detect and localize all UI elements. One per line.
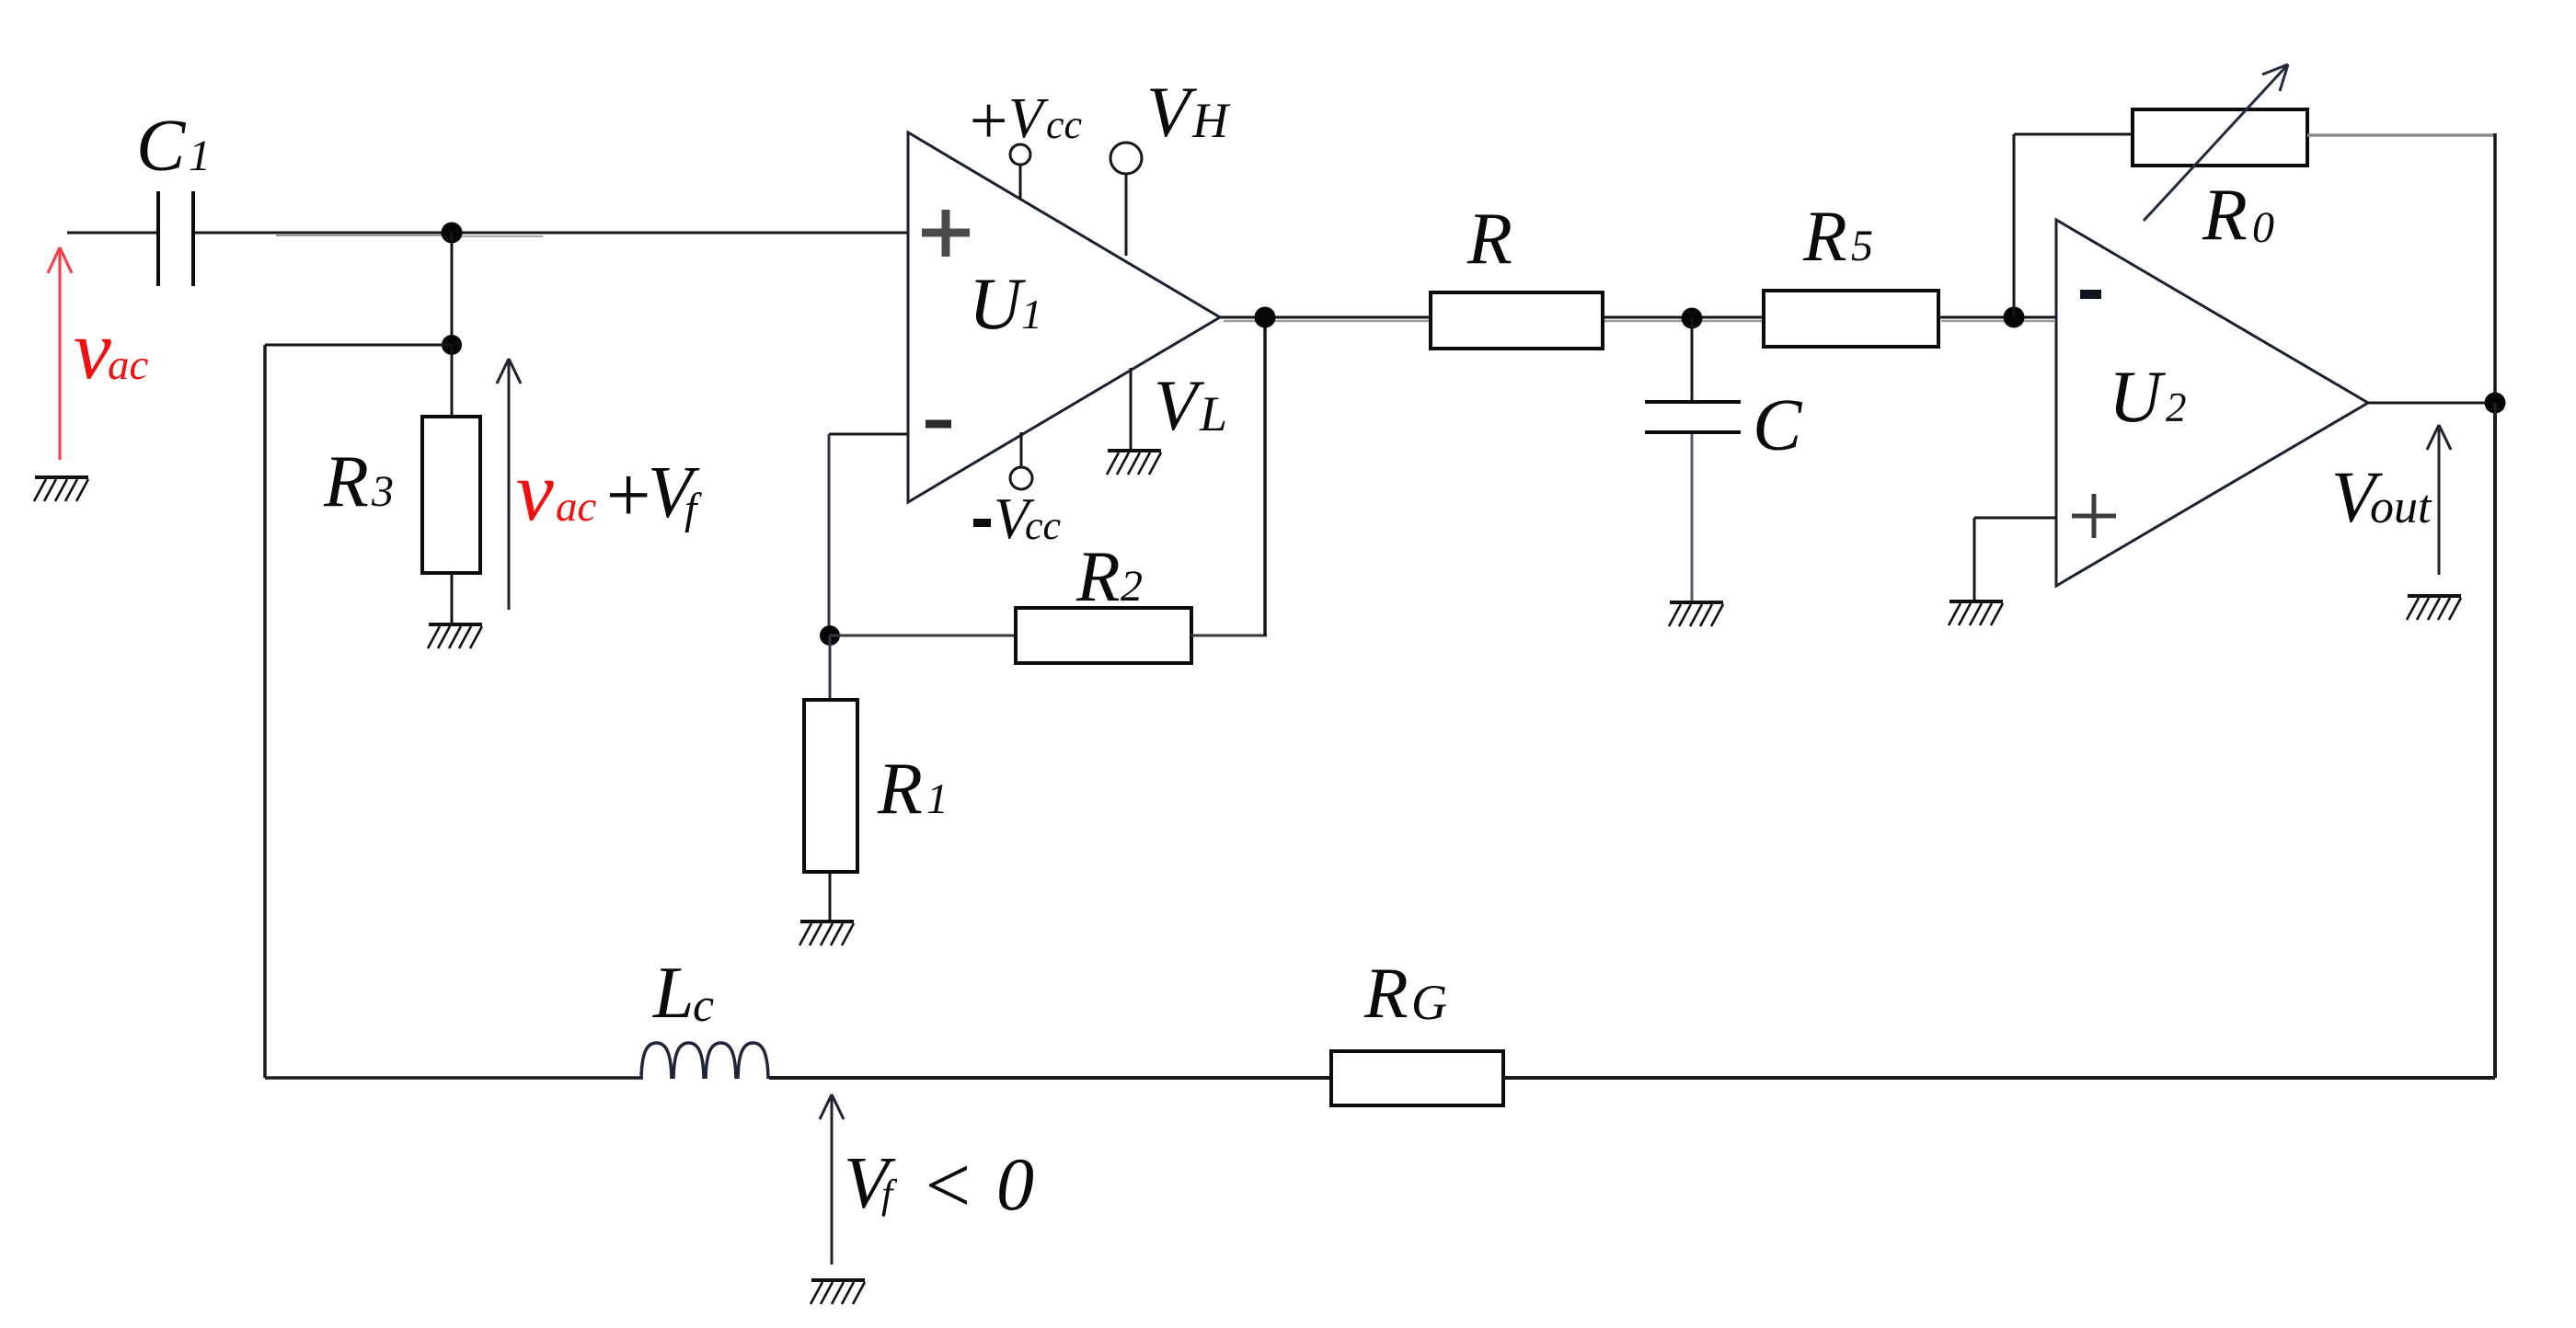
label V_H: [1146, 72, 1231, 152]
svg-text:1: 1: [926, 775, 949, 823]
U2 plus input wire: [1974, 517, 2056, 520]
svg-text:R: R: [1466, 199, 1512, 280]
node D junction dot: [1682, 308, 1703, 329]
svg-text:out: out: [2370, 481, 2432, 533]
label R2: [1075, 536, 1143, 616]
wire R2 to output vertical: [1191, 635, 1267, 637]
arrow V_f: [820, 1094, 844, 1265]
node A junction dot: [442, 223, 463, 244]
svg-text:+: +: [965, 84, 1011, 159]
V_L pin wire: [1130, 368, 1133, 450]
svg-text:3: 3: [371, 467, 394, 516]
svg-text:R: R: [1363, 953, 1409, 1033]
op-amp U1 triangle: [908, 132, 1220, 502]
ground under R3: [428, 624, 482, 648]
svg-text:R: R: [1802, 196, 1847, 276]
svg-text:R: R: [1075, 536, 1121, 616]
red source arrow v_ac: [48, 247, 72, 460]
svg-text:2: 2: [1121, 562, 1143, 611]
svg-text:V: V: [1008, 87, 1049, 150]
U1 plus input sign: [922, 210, 970, 257]
resistor R: [1431, 292, 1603, 349]
R0 variable arrow: [2144, 64, 2288, 221]
svg-text:5: 5: [1851, 222, 1873, 270]
label C1: [136, 106, 211, 187]
label V_f < 0: [844, 1141, 1034, 1231]
wire node C to R2: [830, 635, 1016, 637]
svg-text:H: H: [1191, 93, 1231, 148]
svg-text:1: 1: [189, 132, 211, 180]
node C junction dot: [820, 625, 840, 646]
resistor R5: [1764, 291, 1938, 347]
svg-text:+: +: [601, 450, 655, 539]
+Vcc pin circle: [1019, 166, 1022, 200]
inductor Lc: [641, 1043, 768, 1079]
ground under U2 plus input: [1949, 601, 2003, 625]
wire U1 output to R: [1220, 316, 1432, 319]
svg-text:c: c: [693, 979, 714, 1032]
resistor RG: [1331, 1051, 1503, 1105]
ground under C: [1669, 602, 1723, 626]
op-amp U2 triangle: [2056, 220, 2368, 586]
variable resistor R0: [2133, 109, 2307, 166]
svg-text:v: v: [74, 303, 111, 396]
wire left vertical down to bottom loop: [263, 345, 267, 1078]
label V_L: [1154, 365, 1227, 445]
wire U2 output to node F: [2368, 402, 2495, 405]
wire C1 to node A: [195, 232, 450, 235]
svg-text:cc: cc: [1046, 102, 1083, 147]
node B junction dot: [442, 335, 462, 355]
svg-text:V: V: [1146, 72, 1198, 152]
wire R1 to ground: [829, 872, 832, 920]
label v_ac (red): [74, 303, 149, 396]
node E junction dot: [2004, 307, 2025, 328]
label U2: [2109, 357, 2187, 438]
wire inductor to RG: [769, 1076, 1331, 1080]
U1 minus input sign: [926, 420, 951, 429]
resistor R1: [804, 700, 857, 872]
svg-text:V: V: [1154, 365, 1205, 445]
wire feedback top left: [2014, 133, 2133, 136]
svg-text:0: 0: [2252, 203, 2274, 252]
label Lc: [652, 953, 714, 1034]
label R1: [877, 749, 949, 830]
-Vcc pin circle: [1020, 432, 1023, 467]
wire C to ground: [1691, 434, 1694, 601]
label +Vcc: [965, 84, 1083, 159]
svg-text:C: C: [136, 106, 187, 187]
arrow v_ac+Vf (black): [497, 359, 521, 610]
ground under V_out: [2407, 596, 2461, 620]
node output U1 dot: [1255, 307, 1276, 328]
U2 minus input sign: [2080, 290, 2101, 299]
svg-text:U: U: [969, 264, 1027, 345]
label U1: [969, 264, 1042, 345]
ground under V_f arrow: [811, 1280, 865, 1304]
label R0: [2202, 175, 2274, 256]
wire plus input down to ground: [1973, 518, 1976, 600]
label R3: [323, 441, 394, 522]
svg-text:L: L: [652, 953, 695, 1034]
wire R3 to ground: [451, 573, 454, 624]
wire right vertical down: [2493, 403, 2497, 1078]
svg-text:0: 0: [996, 1142, 1034, 1226]
svg-text:R: R: [323, 441, 369, 522]
svg-text:R: R: [877, 749, 923, 830]
svg-text:L: L: [1199, 386, 1227, 441]
svg-text:G: G: [1411, 975, 1447, 1030]
wire R0 to right vertical: [2307, 133, 2495, 137]
arrow V_out: [2427, 425, 2451, 575]
svg-text:1: 1: [1021, 291, 1042, 338]
wire bottom left segment: [265, 1076, 643, 1080]
wire node B down to R3: [451, 345, 454, 417]
svg-text:C: C: [1753, 385, 1803, 466]
ground under v_ac source: [34, 477, 88, 501]
node F junction dot: [2485, 393, 2506, 414]
wire node A to U1 plus input: [450, 232, 909, 235]
label -Vcc: [973, 487, 1062, 551]
label R5: [1802, 196, 1873, 276]
wire node A down to node B: [451, 233, 454, 345]
svg-text:v: v: [516, 444, 554, 538]
wire minus input down to node C: [828, 434, 831, 635]
capacitor C1: [158, 191, 193, 286]
ground V_L: [1107, 451, 1161, 475]
svg-text:cc: cc: [1025, 503, 1062, 548]
wire right vertical (feedback to output node): [2493, 133, 2497, 403]
wire RG to right vertical: [1503, 1076, 2495, 1080]
svg-text:ac: ac: [556, 483, 597, 531]
U1 minus input wire: [829, 433, 908, 436]
wire input left of C1: [67, 232, 157, 235]
svg-text:<: <: [920, 1141, 974, 1231]
wire node E up to feedback: [2013, 134, 2016, 317]
wire node C down to R1: [829, 635, 832, 700]
svg-text:2: 2: [2166, 384, 2187, 430]
svg-text:U: U: [2109, 357, 2167, 438]
wire output vertical down from output node: [1263, 317, 1267, 635]
label V_out: [2331, 458, 2432, 538]
resistor R2: [1016, 608, 1191, 663]
svg-text:ac: ac: [108, 341, 149, 389]
wire node B to left vertical: [265, 344, 452, 347]
wire node D down to C: [1691, 318, 1694, 401]
U2 plus input sign: [2072, 494, 2116, 538]
label v_ac + V_f: [516, 444, 702, 539]
wire R5 to node E: [1938, 316, 2056, 319]
resistor R3: [422, 417, 480, 573]
wire R to node D: [1603, 316, 1764, 319]
ground under R1: [799, 922, 854, 945]
V_H pin circle: [1125, 175, 1128, 256]
capacitor C: [1645, 402, 1741, 432]
label RG: [1363, 953, 1447, 1033]
svg-text:R: R: [2202, 175, 2248, 256]
